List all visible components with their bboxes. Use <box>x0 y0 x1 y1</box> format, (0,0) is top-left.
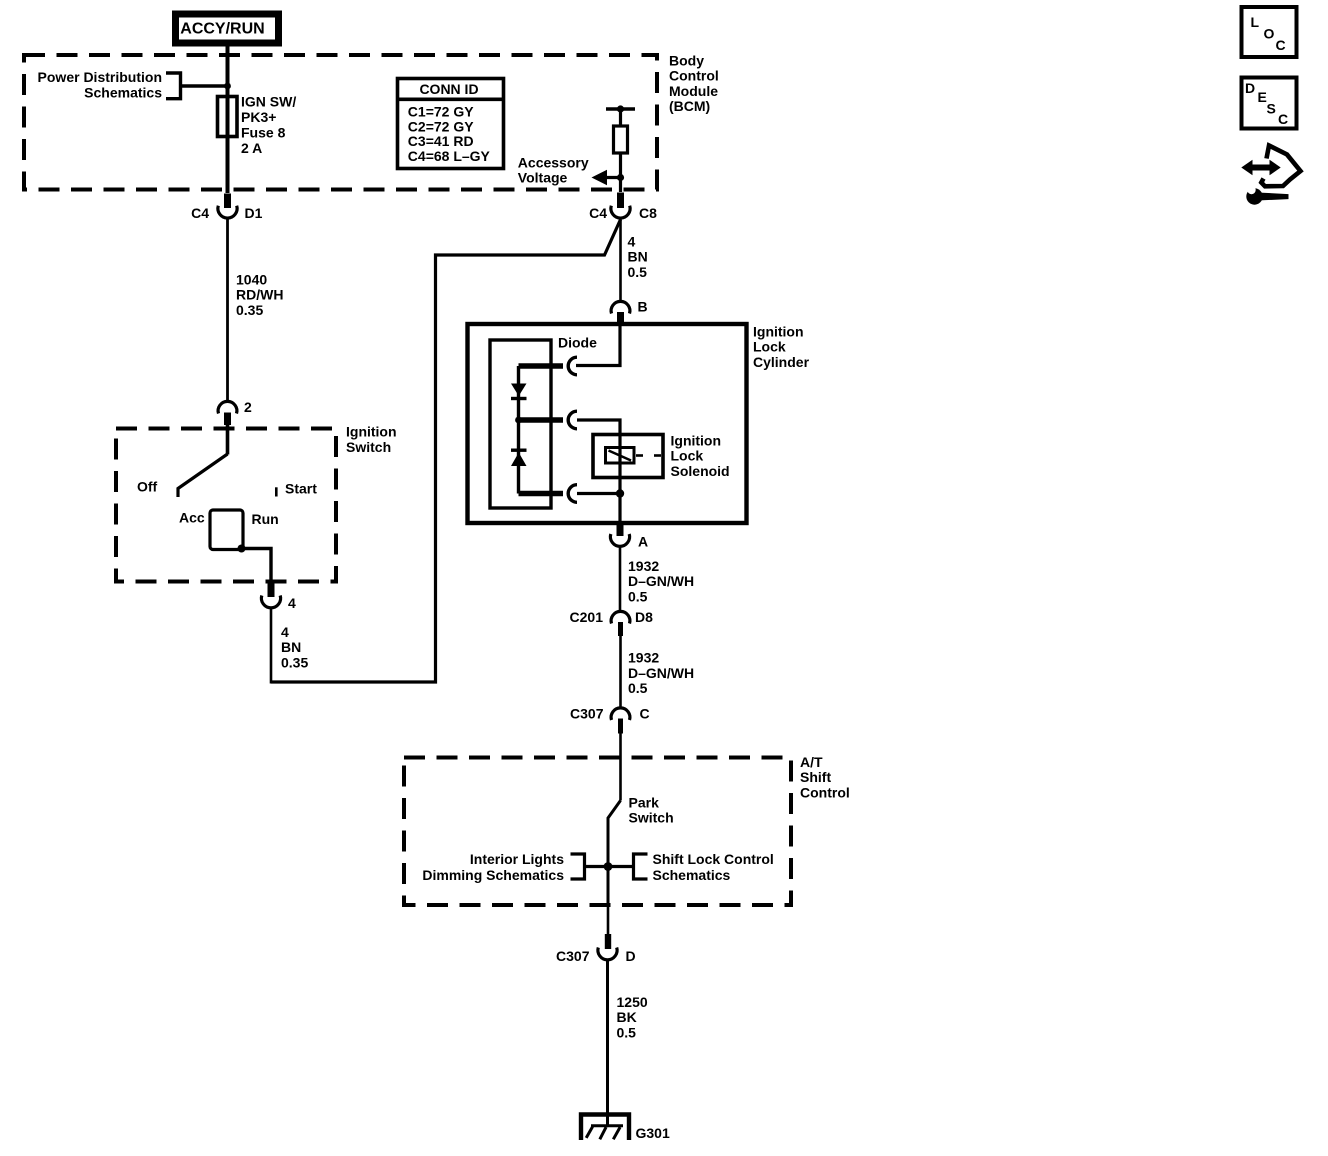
svg-text:2 A: 2 A <box>241 140 262 156</box>
svg-text:4: 4 <box>288 595 296 611</box>
svg-text:Body: Body <box>669 52 704 68</box>
svg-text:0.5: 0.5 <box>617 1024 637 1040</box>
svg-text:Ignition: Ignition <box>346 424 397 440</box>
svg-text:CONN ID: CONN ID <box>419 81 478 97</box>
svg-text:A/T: A/T <box>800 754 823 770</box>
svg-text:Acc: Acc <box>179 509 205 525</box>
svg-text:Schematics: Schematics <box>653 867 731 883</box>
svg-text:BK: BK <box>617 1009 637 1025</box>
svg-text:Switch: Switch <box>629 810 674 826</box>
svg-text:A: A <box>638 534 648 550</box>
svg-text:D1: D1 <box>245 205 263 221</box>
svg-text:Run: Run <box>252 511 279 527</box>
svg-text:ACCY/RUN: ACCY/RUN <box>180 21 264 38</box>
svg-text:Shift: Shift <box>800 769 831 785</box>
svg-text:C4: C4 <box>589 205 607 221</box>
svg-text:D: D <box>626 948 636 964</box>
svg-text:C: C <box>640 705 650 721</box>
svg-text:Cylinder: Cylinder <box>753 354 810 370</box>
svg-text:4: 4 <box>628 233 636 249</box>
svg-text:D: D <box>1245 80 1255 96</box>
svg-text:Ignition: Ignition <box>753 323 804 339</box>
svg-text:Diode: Diode <box>558 334 597 350</box>
svg-text:C8: C8 <box>639 205 657 221</box>
svg-text:D–GN/WH: D–GN/WH <box>628 573 694 589</box>
svg-text:2: 2 <box>244 399 252 415</box>
svg-text:Shift Lock Control: Shift Lock Control <box>653 851 774 867</box>
svg-text:0.5: 0.5 <box>628 588 648 604</box>
svg-text:C201: C201 <box>570 609 604 625</box>
svg-text:D–GN/WH: D–GN/WH <box>628 665 694 681</box>
svg-text:0.5: 0.5 <box>628 264 648 280</box>
svg-text:Accessory: Accessory <box>518 154 589 170</box>
svg-text:B: B <box>638 298 648 314</box>
svg-text:RD/WH: RD/WH <box>236 287 283 303</box>
svg-text:G301: G301 <box>636 1125 670 1141</box>
svg-text:IGN SW/: IGN SW/ <box>241 94 296 110</box>
svg-text:Fuse 8: Fuse 8 <box>241 125 286 141</box>
svg-text:C2=72 GY: C2=72 GY <box>408 118 474 134</box>
svg-text:C4=68 L–GY: C4=68 L–GY <box>408 148 491 164</box>
svg-text:O: O <box>1264 25 1275 41</box>
svg-text:Control: Control <box>669 68 719 84</box>
svg-text:C307: C307 <box>556 948 590 964</box>
svg-text:C1=72 GY: C1=72 GY <box>408 104 474 120</box>
svg-text:0.35: 0.35 <box>281 654 308 670</box>
svg-text:BN: BN <box>281 639 301 655</box>
svg-text:L: L <box>1251 14 1260 30</box>
svg-text:E: E <box>1258 89 1267 105</box>
svg-text:Schematics: Schematics <box>84 84 162 100</box>
svg-text:Dimming Schematics: Dimming Schematics <box>422 867 564 883</box>
svg-text:4: 4 <box>281 624 289 640</box>
svg-text:Switch: Switch <box>346 439 391 455</box>
svg-text:Lock: Lock <box>671 448 704 464</box>
svg-text:C: C <box>1278 111 1288 127</box>
svg-text:1932: 1932 <box>628 650 659 666</box>
svg-text:Voltage: Voltage <box>518 170 568 186</box>
svg-text:Park: Park <box>629 794 660 810</box>
svg-text:C307: C307 <box>570 705 604 721</box>
svg-text:Lock: Lock <box>753 339 786 355</box>
svg-text:S: S <box>1267 100 1276 116</box>
svg-text:0.5: 0.5 <box>628 680 648 696</box>
svg-text:C3=41 RD: C3=41 RD <box>408 133 474 149</box>
svg-text:Module: Module <box>669 83 718 99</box>
svg-text:Solenoid: Solenoid <box>671 463 730 479</box>
svg-text:Ignition: Ignition <box>671 432 722 448</box>
svg-text:Control: Control <box>800 784 850 800</box>
svg-text:1932: 1932 <box>628 558 659 574</box>
svg-text:D8: D8 <box>635 609 653 625</box>
svg-text:(BCM): (BCM) <box>669 98 710 114</box>
svg-text:C4: C4 <box>191 205 209 221</box>
svg-text:1250: 1250 <box>617 994 648 1010</box>
svg-text:0.35: 0.35 <box>236 302 263 318</box>
svg-text:1040: 1040 <box>236 271 267 287</box>
svg-text:BN: BN <box>628 249 648 265</box>
svg-text:Interior Lights: Interior Lights <box>470 851 564 867</box>
svg-text:Power Distribution: Power Distribution <box>38 69 162 85</box>
svg-text:Start: Start <box>285 480 317 496</box>
svg-text:C: C <box>1276 37 1286 53</box>
svg-text:PK3+: PK3+ <box>241 109 276 125</box>
svg-text:Off: Off <box>137 478 158 494</box>
